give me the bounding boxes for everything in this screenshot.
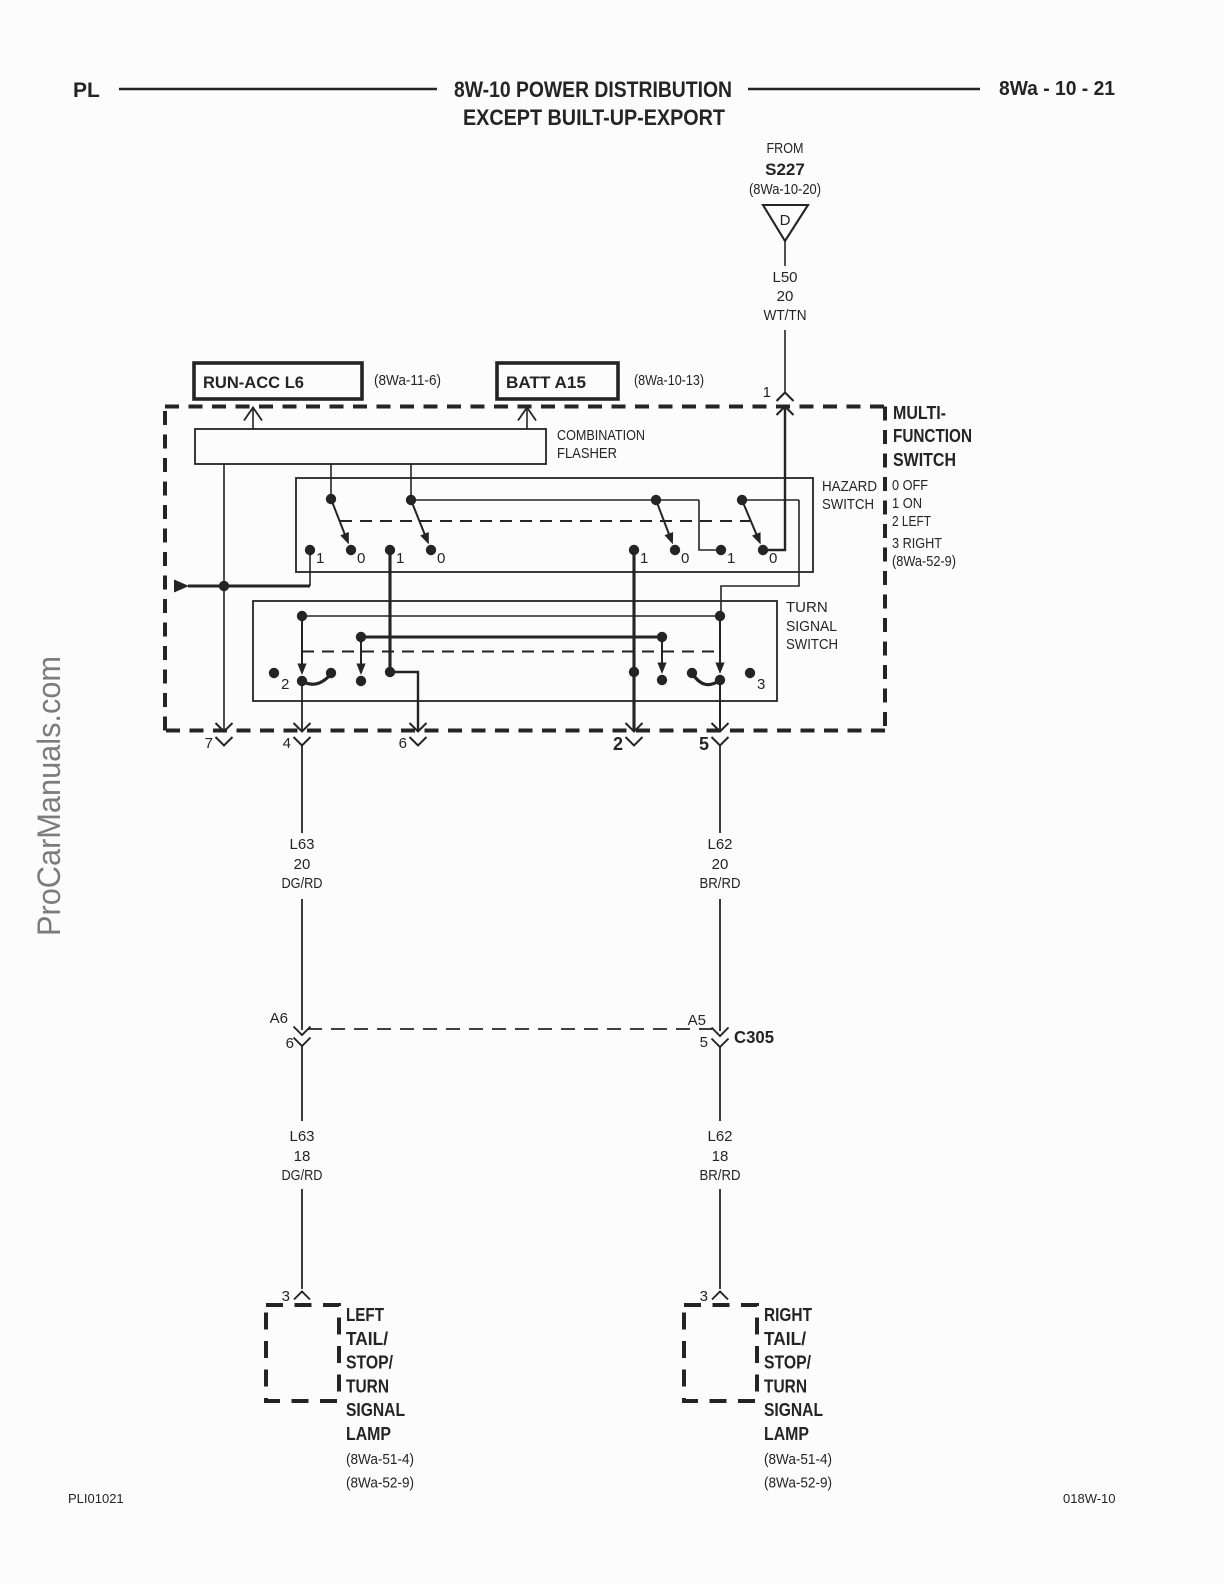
svg-text:20: 20 — [294, 856, 311, 873]
svg-text:TAIL/: TAIL/ — [346, 1329, 388, 1349]
mid-right arrow — [661, 637, 663, 665]
C305 left arrow — [294, 1027, 311, 1036]
hazard switch box — [296, 478, 813, 572]
header rule right — [748, 88, 980, 91]
svg-text:TURN: TURN — [764, 1376, 807, 1396]
svg-text:3: 3 — [757, 676, 765, 693]
turn signal mid-right terminal — [657, 632, 667, 642]
wire flasher pin to exit 7 (upper segment) — [223, 464, 225, 586]
svg-text:6: 6 — [399, 735, 407, 752]
svg-text:1: 1 — [640, 550, 648, 567]
svg-text:SWITCH: SWITCH — [786, 636, 838, 653]
svg-text:5: 5 — [699, 734, 709, 754]
svg-text:1 ON: 1 ON — [892, 495, 922, 512]
hazard pole 3 wiper arrow — [656, 500, 670, 536]
svg-text:3: 3 — [700, 1288, 708, 1305]
wire L63 18 labels — [282, 1128, 323, 1184]
turn signal mid-left terminal — [356, 632, 366, 642]
svg-text:LAMP: LAMP — [764, 1424, 809, 1444]
svg-text:(8Wa-52-9): (8Wa-52-9) — [892, 553, 956, 570]
svg-text:BATT A15: BATT A15 — [506, 373, 586, 392]
combination flasher label — [557, 427, 645, 462]
svg-text:0: 0 — [681, 550, 689, 567]
wire L63 labels — [282, 836, 323, 892]
switch position legend — [892, 477, 956, 570]
wire flasher to hazard pole 1 — [330, 464, 332, 499]
wire L62 labels — [700, 836, 741, 892]
svg-text:TURN: TURN — [786, 599, 828, 616]
mid-right contact — [657, 675, 667, 685]
hazard pole 4 common — [737, 495, 747, 505]
right wiper contact — [715, 675, 725, 685]
svg-text:(8Wa-11-6): (8Wa-11-6) — [374, 372, 441, 389]
svg-text:(8Wa-10-13): (8Wa-10-13) — [634, 372, 704, 389]
svg-text:FUNCTION: FUNCTION — [893, 426, 972, 446]
fuse box BATT A15 — [497, 363, 618, 399]
right tail/stop/turn signal lamp dashed box — [684, 1305, 757, 1401]
svg-text:STOP/: STOP/ — [764, 1353, 811, 1373]
wire feed to hazard pole 1 contact 1 — [188, 585, 310, 588]
wire from D triangle — [784, 241, 786, 266]
right wiper arm end contact — [687, 668, 697, 678]
svg-text:TURN: TURN — [346, 1376, 389, 1396]
svg-text:3: 3 — [282, 1288, 290, 1305]
svg-text:A5: A5 — [688, 1012, 706, 1029]
wire hazard pole 3 contact 1 to exit 2 — [632, 550, 635, 731]
svg-text:8Wa - 10 - 21: 8Wa - 10 - 21 — [999, 78, 1115, 100]
wire L63 18 upper segment — [301, 1046, 303, 1121]
turn signal contact on exit 2 wire — [629, 667, 639, 677]
wire L50 lower segment — [784, 330, 786, 392]
svg-text:7: 7 — [205, 735, 213, 752]
C305 dashed connector line — [308, 1028, 712, 1030]
wire L62 18 upper segment — [719, 1047, 721, 1121]
svg-text:FLASHER: FLASHER — [557, 445, 617, 462]
svg-text:20: 20 — [712, 856, 729, 873]
hazard pole 4 contact 0 — [758, 545, 768, 555]
hazard pole 2 contact 0 — [426, 545, 436, 555]
svg-text:SIGNAL: SIGNAL — [346, 1400, 405, 1420]
svg-text:2: 2 — [281, 676, 289, 693]
hazard pole 3 contact 1 — [629, 545, 639, 555]
C305 right arrow — [712, 1028, 729, 1037]
svg-text:SIGNAL: SIGNAL — [764, 1400, 823, 1420]
hazard pole 2 contact 1 — [385, 545, 395, 555]
right pole wiper arrow — [719, 616, 721, 665]
svg-text:0: 0 — [357, 550, 365, 567]
svg-text:2 LEFT: 2 LEFT — [892, 513, 931, 530]
turn signal switch box — [253, 601, 777, 701]
wire to exit 6 — [390, 672, 418, 731]
mid-left contact — [356, 676, 366, 686]
wire L62 18 labels — [700, 1128, 741, 1184]
C305 right chevron — [712, 1039, 729, 1048]
wire L50 into pole 4 contact 0 — [768, 407, 785, 551]
connector chevron above border — [777, 393, 794, 402]
svg-text:SWITCH: SWITCH — [822, 496, 874, 513]
connector arrow entering switch — [777, 407, 794, 416]
hazard pole 1 contact 1 — [305, 545, 315, 555]
wire L62 to C305 — [719, 899, 721, 1031]
C305 left chevron — [294, 1038, 311, 1047]
svg-text:4: 4 — [283, 735, 291, 752]
wire L63 to C305 — [301, 899, 303, 1030]
svg-text:L50: L50 — [772, 269, 797, 286]
wire junction to exit 7 (lower segment) — [223, 586, 225, 731]
turn signal common bus wire — [302, 615, 720, 617]
wire flasher to hazard pole 2 — [410, 464, 412, 500]
connector pin 2 at switch border — [613, 723, 643, 754]
svg-text:L62: L62 — [707, 836, 732, 853]
svg-text:SIGNAL: SIGNAL — [786, 618, 837, 635]
wire L62 upper segment — [719, 746, 721, 834]
svg-text:COMBINATION: COMBINATION — [557, 427, 645, 444]
hazard pole 2 wiper arrow — [411, 500, 425, 536]
svg-text:0 OFF: 0 OFF — [892, 477, 928, 494]
hazard pole 3 contact 0 — [670, 545, 680, 555]
svg-text:(8Wa-52-9): (8Wa-52-9) — [346, 1475, 414, 1492]
left lamp connector chevron — [294, 1292, 310, 1300]
input arrow (feed) — [174, 580, 189, 593]
svg-text:RIGHT: RIGHT — [764, 1305, 812, 1325]
svg-text:D: D — [780, 212, 791, 229]
wire flasher to RUN-ACC with arrow — [244, 408, 262, 430]
svg-text:L63: L63 — [289, 1128, 314, 1145]
connector pin 7 at switch border — [205, 723, 233, 752]
wire hazard pole 2 contact 1 to turn signal contact — [388, 550, 391, 672]
svg-text:0: 0 — [769, 550, 777, 567]
hazard switch gang dashed link — [340, 520, 750, 522]
off-page symbol D (triangle) — [763, 205, 808, 241]
wire left wiper to exit 4 — [301, 681, 303, 731]
hazard pole 4 contact 1 — [716, 545, 726, 555]
svg-text:DG/RD: DG/RD — [282, 875, 323, 892]
combination flasher box — [195, 429, 546, 464]
junction at exit 7 wire — [219, 581, 229, 591]
svg-text:S227: S227 — [765, 160, 805, 179]
svg-text:(8Wa-51-4): (8Wa-51-4) — [346, 1451, 414, 1468]
svg-text:1: 1 — [316, 550, 324, 567]
wire right wiper to exit 5 — [719, 680, 721, 731]
connector pin 4 at switch border — [283, 723, 311, 752]
svg-text:A6: A6 — [270, 1010, 288, 1027]
multi-function switch dashed enclosure — [165, 407, 885, 731]
mid-left arrow — [360, 637, 362, 666]
svg-text:18: 18 — [712, 1148, 729, 1165]
hazard pole 4 common stub — [742, 499, 799, 501]
svg-text:018W-10: 018W-10 — [1063, 1491, 1116, 1506]
svg-text:BR/RD: BR/RD — [700, 875, 741, 892]
svg-text:LEFT: LEFT — [346, 1305, 384, 1325]
svg-text:0: 0 — [437, 550, 445, 567]
turn signal right common — [715, 611, 725, 621]
connector pin 6 at switch border — [399, 723, 427, 752]
svg-text:(8Wa-52-9): (8Wa-52-9) — [764, 1475, 832, 1492]
left wiper arm end contact — [326, 668, 336, 678]
svg-text:ProCarManuals.com: ProCarManuals.com — [31, 656, 67, 936]
left lamp label — [346, 1305, 414, 1492]
svg-text:20: 20 — [777, 288, 794, 305]
turn signal left common — [297, 611, 307, 621]
left wiper arm arc — [302, 674, 331, 684]
left tail/stop/turn signal lamp dashed box — [266, 1305, 339, 1401]
header rule left — [119, 88, 437, 91]
svg-text:3 RIGHT: 3 RIGHT — [892, 535, 942, 552]
hazard pole 3 common — [651, 495, 661, 505]
wire L63 18 to left lamp — [301, 1189, 303, 1289]
contact 2 (unused) — [269, 668, 279, 678]
svg-text:LAMP: LAMP — [346, 1424, 391, 1444]
contact 3 (unused) — [745, 668, 755, 678]
svg-text:2: 2 — [613, 734, 623, 754]
left pole wiper arrow — [301, 616, 303, 666]
svg-text:8W-10 POWER DISTRIBUTION: 8W-10 POWER DISTRIBUTION — [454, 77, 732, 102]
step wire to pole 4 contact 1 — [699, 500, 716, 550]
svg-text:WT/TN: WT/TN — [764, 307, 807, 324]
svg-text:HAZARD: HAZARD — [822, 478, 877, 495]
svg-text:18: 18 — [294, 1148, 311, 1165]
svg-text:1: 1 — [727, 550, 735, 567]
svg-text:MULTI-: MULTI- — [893, 403, 946, 423]
multi-function switch title — [893, 403, 972, 470]
svg-text:SWITCH: SWITCH — [893, 450, 956, 470]
wire L62 18 to right lamp — [719, 1189, 721, 1289]
svg-text:RUN-ACC L6: RUN-ACC L6 — [203, 373, 304, 392]
svg-text:BR/RD: BR/RD — [700, 1167, 741, 1184]
hazard switch label — [822, 478, 877, 513]
svg-text:6: 6 — [286, 1035, 294, 1052]
hazard pole 1 wiper arrow — [331, 499, 345, 536]
svg-text:L63: L63 — [289, 836, 314, 853]
svg-text:PLI01021: PLI01021 — [68, 1491, 124, 1506]
svg-text:1: 1 — [763, 384, 771, 401]
hazard pole 2 common — [406, 495, 416, 505]
svg-text:C305: C305 — [734, 1027, 774, 1047]
turn signal contact on that wire — [385, 667, 395, 677]
riser to pole 1 contact 1 — [309, 550, 311, 586]
right wiper arm arc — [692, 673, 720, 685]
wire flasher to BATT with arrow — [518, 408, 536, 430]
turn signal gang dashed link — [302, 651, 719, 653]
right lamp label — [764, 1305, 832, 1492]
svg-text:TAIL/: TAIL/ — [764, 1329, 806, 1349]
wire L63 upper segment — [301, 746, 303, 834]
svg-text:FROM: FROM — [767, 140, 804, 157]
svg-text:STOP/: STOP/ — [346, 1353, 393, 1373]
svg-text:DG/RD: DG/RD — [282, 1167, 323, 1184]
left wiper contact — [297, 676, 307, 686]
svg-text:L62: L62 — [707, 1128, 732, 1145]
hazard pole 1 contact 0 — [346, 545, 356, 555]
hazard pole 4 wiper arrow — [742, 500, 757, 536]
turn signal lamp bus wire — [361, 635, 662, 638]
fuse box RUN-ACC L6 — [194, 363, 362, 399]
svg-text:EXCEPT BUILT-UP-EXPORT: EXCEPT BUILT-UP-EXPORT — [463, 105, 725, 130]
wire pole 4 common to turn signal switch — [721, 500, 799, 611]
hazard common link wire pole2-pole3 — [411, 499, 699, 501]
svg-text:5: 5 — [700, 1034, 708, 1051]
svg-text:1: 1 — [396, 550, 404, 567]
turn signal switch label — [786, 599, 838, 653]
svg-text:(8Wa-10-20): (8Wa-10-20) — [749, 181, 821, 198]
svg-text:(8Wa-51-4): (8Wa-51-4) — [764, 1451, 832, 1468]
svg-text:PL: PL — [73, 79, 100, 102]
connector pin 5 at switch border — [699, 723, 729, 754]
right lamp connector chevron — [712, 1292, 728, 1300]
hazard pole 1 common — [326, 494, 336, 504]
